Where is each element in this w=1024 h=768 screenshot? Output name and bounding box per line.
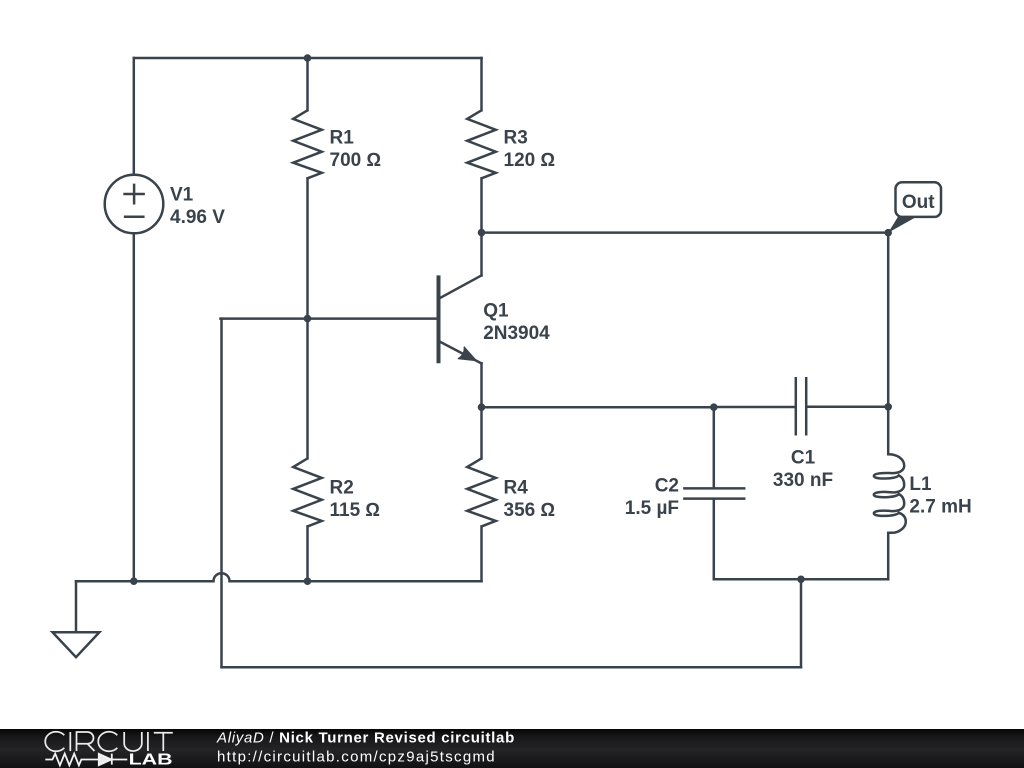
svg-text:L1: L1 bbox=[909, 474, 932, 495]
junction dot top rail at R1 bbox=[304, 54, 312, 62]
wire output rail to Out flag bbox=[482, 231, 889, 234]
wire C1 right plate to L1 node bbox=[808, 406, 889, 409]
wire feedback down from LC bottom bbox=[800, 579, 803, 667]
junction dot ground rail at R2 bbox=[304, 577, 312, 585]
wire R3 top lead bbox=[480, 58, 483, 110]
junction dot ground rail at V1 bbox=[130, 577, 138, 585]
wire top rail from V1 to R3 bbox=[134, 57, 482, 60]
resistor R4 356 Ohm bbox=[467, 458, 555, 526]
svg-text:Q1: Q1 bbox=[483, 301, 509, 322]
wire LC bottom rail bbox=[714, 578, 888, 581]
junction dot C1/L1 node bbox=[884, 403, 892, 411]
svg-text:700 Ω: 700 Ω bbox=[330, 150, 382, 171]
svg-text:LAB: LAB bbox=[129, 751, 173, 768]
svg-text:R4: R4 bbox=[504, 478, 529, 499]
voltage source V1 4.96 V bbox=[105, 175, 226, 234]
wire ground stem bbox=[75, 581, 78, 632]
wire base node down to R2 bbox=[306, 319, 309, 459]
wire feedback up to base bbox=[220, 319, 223, 668]
footer bar bbox=[0, 729, 1024, 768]
wire Q1 base bbox=[221, 317, 439, 320]
svg-text:115 Ω: 115 Ω bbox=[330, 500, 381, 521]
svg-text:330 nF: 330 nF bbox=[773, 470, 833, 491]
wire R1 top lead bbox=[306, 58, 309, 110]
inductor L1 2.7 mH bbox=[874, 454, 972, 533]
wire R2 bottom lead bbox=[306, 526, 309, 581]
svg-text:356 Ω: 356 Ω bbox=[504, 500, 556, 521]
capacitor C2 1.5 uF bbox=[625, 476, 744, 520]
wire C2 top lead bbox=[713, 407, 716, 487]
junction dot C2 top node bbox=[710, 403, 718, 411]
resistor R1 700 Ohm bbox=[293, 110, 381, 178]
svg-text:1.5 µF: 1.5 µF bbox=[625, 498, 679, 519]
svg-text:120 Ω: 120 Ω bbox=[504, 150, 556, 171]
wire L1 top lead bbox=[887, 407, 890, 455]
junction dot at Out flag bbox=[884, 229, 892, 237]
svg-text:AliyaD / Nick Turner Revised c: AliyaD / Nick Turner Revised circuitlab bbox=[216, 729, 515, 746]
svg-text:V1: V1 bbox=[170, 184, 194, 205]
svg-text:http://circuitlab.com/cpz9aj5t: http://circuitlab.com/cpz9aj5tscgmd bbox=[217, 749, 496, 766]
ground symbol bbox=[53, 632, 100, 657]
logo resistor-diode strip bbox=[45, 754, 127, 766]
resistor R3 120 Ohm bbox=[467, 110, 555, 178]
junction dot collector/out node bbox=[478, 229, 486, 237]
logo CIRCUIT lettering bbox=[45, 732, 173, 752]
transistor Q1 2N3904 bbox=[439, 275, 551, 363]
svg-text:C1: C1 bbox=[791, 447, 816, 468]
junction dot LC bottom bbox=[797, 576, 805, 584]
wire R1 bottom to base node bbox=[306, 178, 309, 318]
wire Out node down to C1/L1 node bbox=[887, 233, 890, 407]
wire out node down to Q1 collector bbox=[480, 233, 483, 276]
svg-text:R2: R2 bbox=[330, 478, 354, 499]
svg-text:2.7 mH: 2.7 mH bbox=[909, 497, 971, 518]
wire feedback bottom run bbox=[222, 666, 802, 669]
wire emitter node to R4 bbox=[480, 407, 483, 458]
svg-text:R1: R1 bbox=[330, 128, 355, 149]
wire C2 node to C1 left plate bbox=[714, 406, 795, 409]
capacitor C1 330 nF bbox=[773, 378, 833, 491]
wire V1 bottom lead bbox=[133, 233, 136, 581]
wire V1 top lead bbox=[133, 58, 136, 175]
svg-text:C2: C2 bbox=[655, 476, 679, 497]
ground rail with hop over feedback wire bbox=[76, 573, 482, 581]
resistor R2 115 Ohm bbox=[293, 458, 380, 526]
svg-text:2N3904: 2N3904 bbox=[483, 323, 550, 344]
wire R3 bottom to out node bbox=[480, 178, 483, 232]
wire C2 bottom lead bbox=[713, 500, 716, 580]
wire L1 bottom lead bbox=[887, 533, 890, 580]
svg-text:Out: Out bbox=[902, 192, 935, 213]
svg-text:4.96 V: 4.96 V bbox=[170, 207, 225, 228]
wire emitter node to C2 node bbox=[482, 406, 714, 409]
junction dot emitter node bbox=[478, 403, 486, 411]
wire R4 bottom lead bbox=[480, 526, 483, 581]
svg-text:R3: R3 bbox=[504, 128, 528, 149]
junction dot base wire at R1-R2 column bbox=[304, 315, 312, 323]
net flag Out bbox=[888, 182, 941, 232]
wire Q1 emitter lead bbox=[480, 363, 483, 407]
